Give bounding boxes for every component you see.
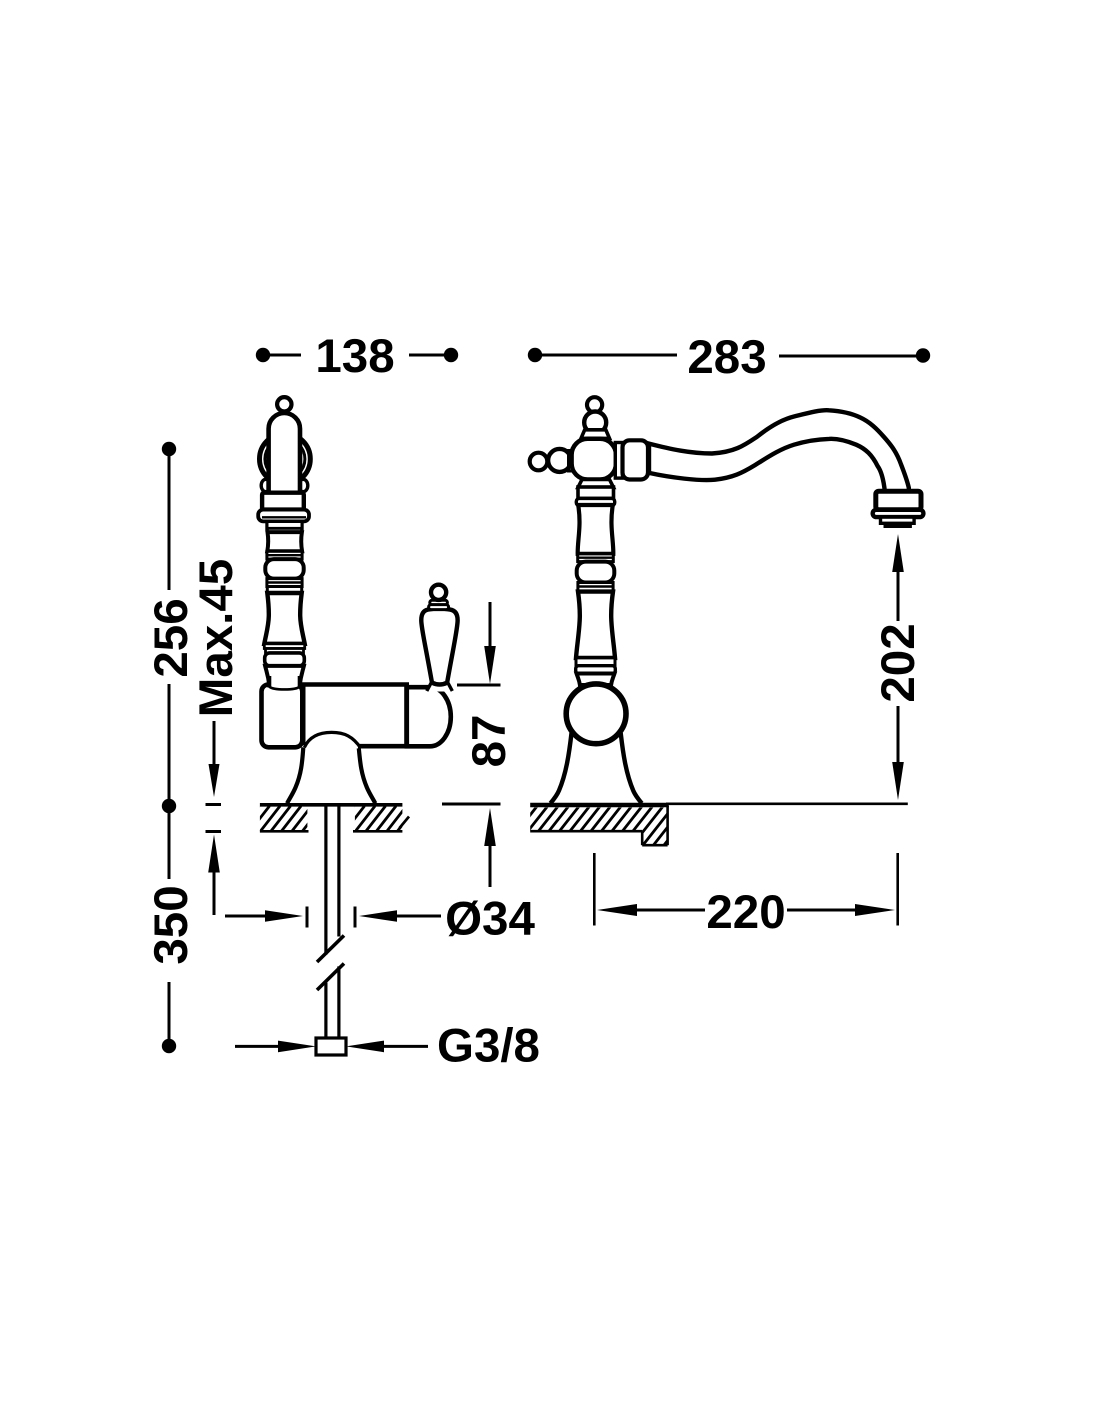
- left view: column torus bulge: [265, 559, 303, 579]
- right view: column throat: [577, 674, 615, 686]
- left view: countertop hatch block right of hole: [333, 806, 449, 833]
- left view: body thick divider line: [302, 686, 306, 745]
- left view: column ring A: [267, 521, 302, 528]
- left view: collar bumps below spout circle: [261, 479, 270, 491]
- left view: column base seam on body cap: [270, 681, 300, 689]
- left view: body cylinder main: [302, 687, 407, 744]
- right view: column vase 2: [576, 592, 615, 658]
- right view: countertop thin reference line to spout: [666, 802, 908, 805]
- right view: column nut: [578, 487, 614, 498]
- left view: G3/8 fitting block: [316, 1038, 346, 1055]
- right view: handle ball (end-on): [548, 449, 571, 472]
- left view: body cylinder left cap: [262, 685, 303, 748]
- right view: spout collar rings: [615, 443, 622, 479]
- right view: bell skirt sides: [550, 733, 571, 803]
- svg-text:87: 87: [463, 715, 516, 768]
- dimension 87 (handle height above counter): [442, 602, 516, 887]
- left view: column throat: [265, 666, 304, 686]
- left view: dome cap over spout circle: [269, 413, 300, 494]
- right view: countertop top line: [530, 803, 669, 808]
- dimension 256 (height above counter): [145, 442, 198, 813]
- svg-text:Ø34: Ø34: [445, 892, 535, 945]
- right view: cross fitting body: [572, 439, 616, 480]
- left view: countertop top line: [260, 803, 403, 807]
- left view: column ring pair: [267, 551, 302, 559]
- left view: handle stem: [427, 679, 453, 692]
- dimension 220 (spout reach): [594, 853, 897, 939]
- dimension G3/8 (supply connector thread): [235, 1019, 540, 1072]
- right view: column torus bulge: [577, 562, 615, 583]
- left view: bell skirt sides: [287, 747, 303, 803]
- svg-text:350: 350: [145, 885, 198, 964]
- left view: column vase 2: [264, 593, 304, 644]
- left view: pipe break symbol: [317, 936, 344, 963]
- left view: supply pipe: [324, 806, 327, 955]
- right view: aerator outlet: [876, 491, 921, 510]
- left view: top finial circle: [277, 397, 291, 411]
- dimension diameter 34 (mounting hole): [225, 892, 535, 945]
- left view: column rings below torus: [267, 579, 302, 587]
- right view: column vase 1: [578, 505, 614, 554]
- left view: handle grip: [421, 609, 457, 685]
- svg-text:283: 283: [687, 331, 766, 384]
- left view: base bell hump (rear rim): [304, 732, 361, 748]
- right view: column flange: [576, 498, 614, 505]
- dimension 138 (top width of side view): [256, 330, 458, 383]
- right view: column base rings: [576, 658, 615, 666]
- svg-text:G3/8: G3/8: [437, 1019, 540, 1072]
- left view: spout end outer circle: [260, 434, 311, 485]
- svg-text:138: 138: [315, 330, 394, 383]
- svg-text:220: 220: [706, 886, 785, 939]
- left view: handle top ring: [431, 585, 446, 600]
- left view: body right end cap: [407, 687, 451, 746]
- right view: column rings below torus: [578, 583, 613, 592]
- dimension Max.45 (max countertop thickness): [190, 559, 243, 915]
- right view: body circle: [566, 684, 626, 744]
- svg-text:Max.45: Max.45: [190, 559, 243, 717]
- left view: spout end inner circle: [265, 439, 305, 479]
- right view: cross fitting neck: [581, 430, 610, 439]
- left view: handle collar discs: [430, 600, 448, 605]
- left view: column base rings: [264, 644, 304, 649]
- right view: top ball: [584, 412, 606, 434]
- right view: column neck flare: [578, 480, 614, 488]
- right view: handle ring (end-on): [530, 453, 548, 471]
- left view: flange disc: [258, 510, 309, 522]
- right view: handle collar stub: [569, 451, 575, 472]
- dimension 350 (hose length below counter): [145, 806, 198, 1053]
- dimension 202 (spout outlet height): [872, 534, 925, 800]
- right view: countertop block outline: [530, 830, 642, 833]
- right view: spout tube: [649, 410, 909, 491]
- right view: column ring pair: [578, 554, 614, 562]
- right view: top finial circle: [587, 397, 602, 412]
- left view: bonnet nut: [262, 493, 304, 510]
- right view: countertop hatch (stepped block): [505, 805, 696, 847]
- left view: countertop hatch block left of hole: [238, 806, 354, 833]
- left view: column vase 1: [267, 532, 302, 551]
- dimension 283 (top width of front view): [528, 331, 930, 384]
- left view: stray hatch stroke at counter edge: [400, 817, 410, 829]
- svg-text:202: 202: [872, 623, 925, 702]
